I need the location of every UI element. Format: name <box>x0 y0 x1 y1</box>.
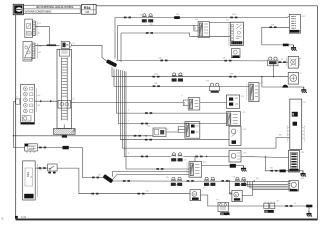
svg-text:4 41: 4 41 <box>21 215 27 219</box>
box G1 <box>190 190 201 201</box>
label box LB <box>153 128 166 137</box>
wire L4 to switch <box>35 167 48 169</box>
junction blob B2 <box>103 174 114 183</box>
wire row3 to control head <box>121 33 230 36</box>
B2 fan wires to C5 <box>113 172 190 177</box>
relay Rb <box>153 85 249 87</box>
fuses Fa <box>143 14 146 17</box>
wire P1 pin to earth loop <box>262 27 290 45</box>
bundle branch wires <box>245 181 291 184</box>
svg-text:AIR CONDITIONING - MANUAL CONT: AIR CONDITIONING - MANUAL CONTROL <box>36 6 75 9</box>
svg-text:BB3: BB3 <box>26 172 30 177</box>
connector strip (ladder) <box>57 49 72 128</box>
junction blob B1 <box>106 59 117 67</box>
splice <box>283 44 289 47</box>
resistor pack <box>289 151 300 173</box>
box R4 <box>229 151 241 163</box>
svg-text:GB: GB <box>85 10 89 14</box>
fan wires to right <box>116 60 161 62</box>
circ pump box <box>288 72 298 84</box>
wire switch to G1 <box>57 168 190 194</box>
svg-text:30 16: 30 16 <box>145 21 151 23</box>
svg-text:R34: R34 <box>84 6 91 10</box>
ladder mid connector <box>58 100 71 108</box>
resistor earth loop <box>265 157 279 171</box>
trunk wires from top <box>114 18 116 59</box>
wire from L2 <box>35 44 60 46</box>
connector C5 <box>187 162 202 178</box>
wire to trunk <box>71 45 109 62</box>
wire from L1 <box>35 27 49 46</box>
inline connector CP2 <box>264 202 275 214</box>
relay RY2 <box>218 202 230 216</box>
svg-text:WITH AIR CONDITIONING: WITH AIR CONDITIONING <box>25 10 52 13</box>
earth branch for circ <box>262 77 282 87</box>
drop to C5 <box>194 157 196 162</box>
G2 to bundle <box>242 190 252 196</box>
blower unit T1 <box>287 99 304 149</box>
top feed wire <box>115 16 289 17</box>
box G2 <box>232 190 242 201</box>
G2 drop from fuse wire <box>229 181 232 194</box>
ladder ground plate <box>53 124 75 137</box>
box R1 <box>226 95 239 108</box>
logo box <box>13 4 23 14</box>
inline connector pair <box>61 42 71 49</box>
splice <box>63 146 69 149</box>
wire from L3 tab down <box>14 102 25 148</box>
wire row2 to C2 <box>118 26 194 28</box>
fusebox L3 <box>21 84 35 124</box>
title block <box>23 5 80 13</box>
earth <box>289 44 294 46</box>
junction vertical <box>273 62 275 76</box>
R34 sheet box <box>82 4 97 14</box>
switch SW <box>48 164 57 173</box>
earth bottom right <box>308 211 310 213</box>
label box c2 <box>194 25 198 31</box>
label LB2 + connector C4 <box>183 98 200 110</box>
L3 right bracket <box>35 88 37 112</box>
box S1 <box>231 49 240 58</box>
connector P1 <box>289 14 300 33</box>
svg-text:S: S <box>235 193 237 197</box>
svg-text:20A: 20A <box>232 13 236 16</box>
connector L1 <box>25 19 42 37</box>
relay RL <box>25 144 38 153</box>
wire ladder to C4 <box>71 102 183 104</box>
svg-text:16A: 16A <box>154 73 158 76</box>
connector L2 <box>23 41 43 61</box>
long wire to LB <box>14 135 154 137</box>
wire relay to splice <box>37 147 62 149</box>
fuse Fc on lower wire <box>172 153 175 156</box>
svg-text:M: M <box>300 58 302 60</box>
box R3 <box>229 126 241 145</box>
C5 earth wire <box>202 165 230 167</box>
connector C2 <box>198 22 209 38</box>
connector L4 <box>23 161 38 200</box>
wire R4 to resistor <box>241 157 289 158</box>
svg-text:B: B <box>2 217 4 221</box>
wire C2 to control head <box>209 22 230 24</box>
motor box Mx <box>287 56 300 68</box>
relay Ra <box>268 57 278 66</box>
wire G1 to bottom run <box>201 195 309 211</box>
control head <box>228 22 243 45</box>
svg-text:NO: NO <box>270 168 274 170</box>
wire L3 to ladder <box>35 100 58 102</box>
wire splice down to lower trunk <box>69 148 104 178</box>
wire LB to C5b <box>166 129 185 132</box>
recirculation motor box <box>289 181 299 192</box>
box R2 <box>226 112 240 126</box>
svg-text:20A: 20A <box>158 57 162 60</box>
svg-text:8: 8 <box>292 113 294 117</box>
fuse Fb on circ wire <box>153 76 289 78</box>
svg-text:MC: MC <box>256 178 260 180</box>
connector C3 <box>247 83 259 102</box>
connector C5b <box>178 122 200 139</box>
main lower feed wire with fuses <box>112 180 290 182</box>
wire row: S1 / relay Ra / motor Mx <box>161 60 268 62</box>
splice on top wire <box>174 16 180 19</box>
wire C4 to R1 <box>200 102 227 104</box>
L3 left tab <box>15 99 20 104</box>
